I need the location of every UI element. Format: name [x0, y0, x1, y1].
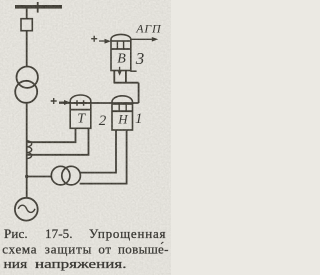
paper grain overlay [0, 0, 171, 275]
relay T body [70, 103, 91, 128]
transformer T1 upper circle [17, 67, 38, 88]
relay T plus marks [74, 100, 86, 106]
minus arrow head [118, 71, 122, 76]
relay V legs [114, 71, 126, 83]
PT right circle [62, 166, 81, 185]
wire V output down to relay N dome [138, 83, 140, 103]
relay V divider [111, 48, 131, 50]
generator G circle [15, 198, 38, 221]
PT left circle [51, 166, 70, 185]
minus sign [130, 70, 136, 72]
relay N divider [112, 110, 133, 112]
relay V body [111, 41, 131, 71]
AGP arrow head [152, 37, 158, 42]
relay N dome [112, 96, 133, 104]
busbar tap tick [37, 2, 39, 13]
minus arrow down from relay V [119, 67, 121, 73]
AGP arrow out of relay V [131, 38, 153, 40]
relay T dome [70, 95, 91, 103]
tap 2 wire [27, 128, 89, 155]
tap 1 wire [27, 128, 76, 142]
minus bus under relay V [114, 82, 139, 84]
relay T divider [70, 109, 91, 111]
wire junction to PT [27, 176, 52, 178]
plus arrow into relay T [59, 101, 65, 103]
plus sign V [91, 36, 97, 42]
wire T1 to winding [26, 103, 28, 141]
wire breaker to transformer T1 [26, 31, 28, 67]
relay N body [112, 104, 133, 130]
plus arrow head T [64, 100, 71, 105]
PT secondary bottom wire to relay N right leg [80, 130, 127, 184]
wire busbar to breaker [26, 9, 28, 19]
plus arrow head V [105, 39, 112, 44]
relay V ticks [117, 41, 123, 49]
breaker box [21, 19, 32, 31]
plus sign T [51, 98, 57, 104]
junction node [25, 175, 28, 178]
relay V dome [111, 34, 131, 41]
winding W bumps [27, 141, 32, 159]
wire winding to generator [26, 141, 28, 198]
PT secondary top wire to relay N left leg [80, 130, 116, 173]
paper background [0, 0, 171, 275]
plus arrow into relay V [99, 40, 106, 42]
common horizontal wire through T and N relay tops [59, 102, 139, 104]
generator sine [18, 205, 35, 212]
relay N ticks [119, 103, 126, 111]
busbar [15, 5, 62, 9]
transformer T1 lower circle [15, 81, 37, 103]
